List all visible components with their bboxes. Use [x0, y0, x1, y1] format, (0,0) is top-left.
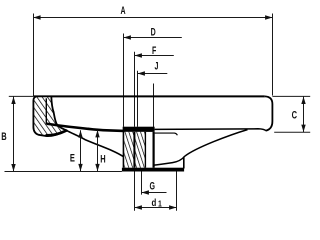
wire: extension line B top: [9, 95, 33, 97]
wire: extension line C bottom: [274, 131, 310, 133]
dimension A line: [33, 15, 272, 19]
hub left outer edge: [123, 127, 125, 168]
wire: extension line G: [141, 172, 143, 195]
svg-text:A: A: [120, 4, 125, 16]
hub inner step edge: [144, 132, 146, 168]
svg-text:B: B: [1, 131, 7, 144]
web bottom silhouette right half: [153, 130, 248, 166]
label d1: [151, 197, 162, 209]
svg-text:H: H: [100, 153, 106, 166]
web cap underside edge right half: [155, 133, 178, 135]
dimension J line: [138, 71, 168, 75]
web top edge right half: [155, 129, 266, 131]
dimension E line: [78, 130, 82, 171]
hub hatched wall: [124, 132, 145, 168]
wire: extension line J: [137, 71, 139, 127]
hub center dark bar: [153, 132, 155, 168]
hub boss right edge: [183, 157, 185, 169]
dimension H line: [95, 130, 99, 171]
wire: extension line A left: [33, 14, 35, 97]
svg-text:J: J: [155, 60, 159, 72]
wire: extension line F: [134, 52, 136, 127]
svg-text:G: G: [150, 180, 155, 192]
svg-text:D: D: [151, 26, 156, 38]
hub bore left edge: [133, 132, 135, 168]
wheel top surface line: [33, 95, 264, 97]
wire: extension line D: [123, 34, 125, 127]
svg-text:C: C: [292, 109, 298, 122]
svg-text:F: F: [152, 44, 157, 56]
hub cap (thin section, blackened): [124, 127, 155, 132]
hub bottom plate (thin section, blackened): [122, 168, 184, 172]
wire: extension line B bottom / baseline: [5, 171, 122, 173]
node: centerline: [153, 84, 155, 128]
dimension d1 line: [135, 205, 177, 209]
dimension B line: [11, 96, 15, 171]
dimension D line: [124, 35, 182, 39]
dimension G line: [142, 190, 167, 194]
dimension F line: [135, 53, 174, 57]
dimension C line: [301, 96, 305, 132]
svg-text:1: 1: [158, 199, 162, 209]
right rim outline: [265, 96, 273, 130]
wire: extension line d1 left: [134, 172, 136, 211]
wire: extension line C top: [272, 95, 310, 97]
web slab (thin section, blackened): [47, 122, 124, 132]
rim section outline (left, hatched): [33, 96, 67, 136]
svg-text:E: E: [70, 152, 75, 165]
wire: extension line d1 right: [176, 172, 178, 211]
web bottom line (left half): [66, 130, 124, 157]
svg-text:d: d: [151, 197, 156, 208]
wire: extension line A right: [272, 14, 274, 96]
